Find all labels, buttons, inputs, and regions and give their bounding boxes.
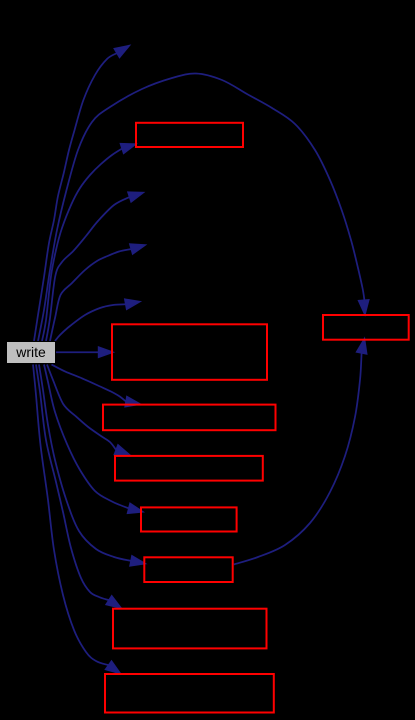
node H box — [115, 456, 263, 481]
edge write->node K — [36, 365, 122, 609]
node write label text — [6, 341, 56, 364]
node I box — [141, 507, 237, 531]
edge write->node H — [47, 365, 130, 456]
edge write->top (offscreen node A) — [34, 45, 130, 341]
node B box — [136, 123, 243, 147]
node G box — [103, 405, 276, 431]
edge write->node C — [46, 192, 144, 341]
edge write->node E — [55, 299, 141, 341]
node write (current function) — [7, 342, 56, 364]
edge write->node J (top route) — [38, 73, 369, 341]
edge write->node G — [52, 365, 142, 408]
edge write->node J2 — [39, 365, 146, 567]
edge write->node D — [50, 244, 146, 341]
node F box — [112, 324, 267, 380]
edge write->node L — [33, 365, 121, 675]
node K box — [113, 609, 267, 649]
node L box — [105, 674, 274, 713]
edge write->node B — [42, 143, 137, 341]
edge node J2->node J (bottom route) — [234, 338, 367, 565]
node J2 box — [144, 557, 232, 582]
edge write->node I — [44, 365, 144, 514]
node J box (right) — [323, 315, 409, 340]
edge write->node F — [56, 347, 114, 358]
